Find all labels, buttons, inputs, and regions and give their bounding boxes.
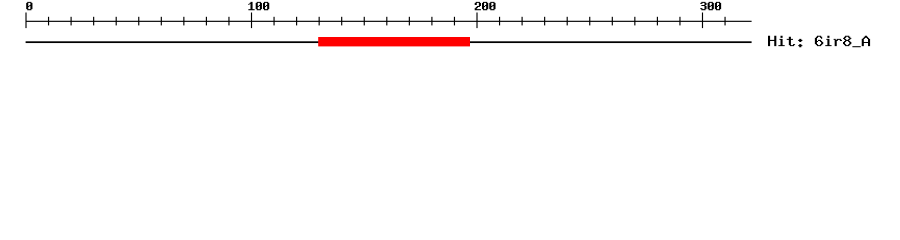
- ruler minor tick 270: [634, 17, 635, 26]
- ruler minor tick 50: [138, 17, 139, 26]
- ruler minor tick 20: [71, 17, 72, 26]
- ruler minor tick 90: [228, 17, 229, 26]
- ruler minor tick 310: [724, 17, 725, 26]
- ruler minor tick 290: [679, 17, 680, 26]
- ruler minor tick 190: [454, 17, 455, 26]
- ruler minor tick 110: [273, 17, 274, 26]
- ruler minor tick 70: [183, 17, 184, 26]
- ruler minor tick 60: [161, 17, 162, 26]
- ruler major tick 200: [476, 13, 477, 29]
- ruler major tick 300: [702, 13, 703, 29]
- ruler minor tick 250: [589, 17, 590, 26]
- ruler minor tick 220: [522, 17, 523, 26]
- ruler label 200: [475, 2, 496, 10]
- ruler label 300: [700, 2, 721, 10]
- ruler minor tick 180: [431, 17, 432, 26]
- ruler minor tick 30: [93, 17, 94, 26]
- ruler minor tick 160: [386, 17, 387, 26]
- hit alignment red bar: [318, 37, 470, 46]
- ruler major tick 0: [25, 13, 26, 29]
- ruler minor tick 280: [657, 17, 658, 26]
- ruler minor tick 80: [206, 17, 207, 26]
- ruler minor tick 260: [612, 17, 613, 26]
- ruler minor tick 40: [116, 17, 117, 26]
- ruler minor tick 210: [499, 17, 500, 26]
- background: [0, 0, 900, 60]
- ruler minor tick 10: [48, 17, 49, 26]
- ruler label 0: [26, 2, 32, 10]
- ruler minor tick 130: [319, 17, 320, 26]
- ruler minor tick 240: [567, 17, 568, 26]
- ruler axis line: [26, 21, 752, 22]
- ruler minor tick 150: [364, 17, 365, 26]
- hit label text: Hit: 6ir8_A: [768, 36, 870, 47]
- ruler minor tick 170: [409, 17, 410, 26]
- ruler minor tick 140: [341, 17, 342, 26]
- ruler minor tick 230: [544, 17, 545, 26]
- ruler label 100: [248, 2, 269, 10]
- ruler major tick 100: [251, 13, 252, 29]
- query alignment line: [26, 41, 752, 43]
- ruler minor tick 120: [296, 17, 297, 26]
